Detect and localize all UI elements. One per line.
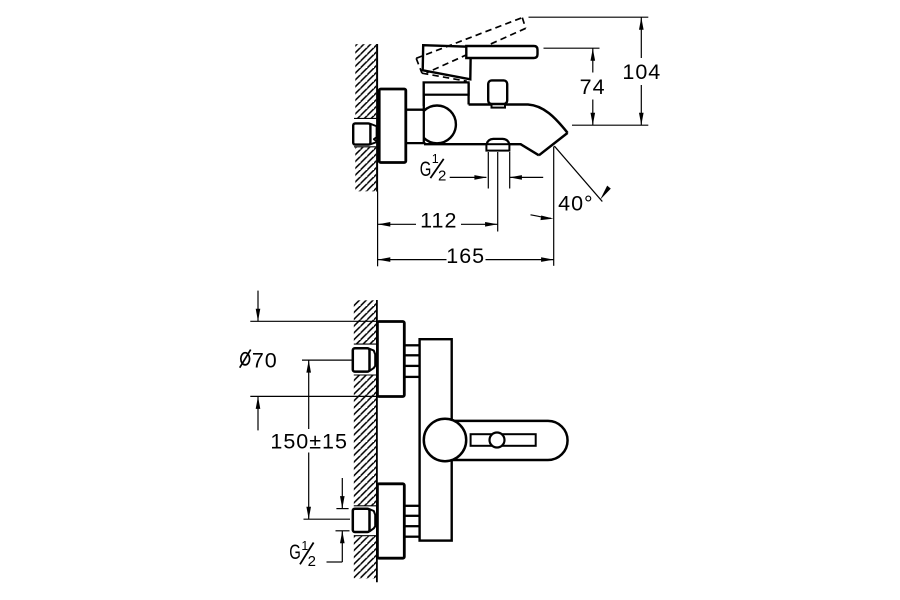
wall face line (front view) [376,300,378,582]
upper inlet fitting (front view) [370,349,376,371]
wall flange (side view) [379,89,406,163]
G1/2 label (side view) [420,152,447,184]
wall hatch (front view) [354,300,376,578]
diverter knob [488,80,507,104]
neck right edge [467,83,469,105]
upper wall flange (front view) [377,322,404,397]
G1/2 shower outlet nut [486,144,509,150]
diverter knob collar [492,103,506,108]
extension line spout outlet (74/104 lower ref) [572,124,648,126]
svg-text:G: G [420,158,432,181]
connector sleeve between flange and valve body [406,111,424,142]
body bottom line (right of G1/2 outlet) [509,143,521,145]
svg-text:2: 2 [438,167,446,184]
G1/2 extension line left [487,152,489,189]
handle lever bar (horizontal position) [466,46,537,58]
G1/2 dimension arrows (front view) [341,478,343,509]
G1/2 label (front view) [289,539,316,570]
hatch gap boundary lines (lower fitting) [354,505,376,507]
lower wall flange (front view) [377,484,404,558]
flange top extension line [250,320,377,322]
lower connection nipple ladder [404,506,419,537]
G1/2 leader elbow [327,561,343,563]
40 degree arrow at slant line [600,186,611,200]
wall face extension line (112/165 left ref) [377,192,379,267]
dia 70 arrows [257,291,259,322]
svg-text:1: 1 [301,539,308,553]
extension line top of dashed lever (104 upper ref) [529,16,649,18]
mixer body (front view) [420,339,452,540]
dimension 165 [378,259,447,261]
upper connection nipple ladder [404,345,419,377]
lower fitting centre extension line [304,518,351,520]
dimension 150+-15 [308,360,310,429]
G1/2 extension lines (front view) [336,508,348,510]
neck left edge [423,83,425,106]
lower inlet fitting (front view) [370,509,376,531]
svg-text:G: G [289,541,301,564]
wall face line (side view) [376,44,378,192]
spout outlet centre extension line [497,152,499,232]
hatch gap behind upper fitting [353,344,376,375]
lever grip recess [471,434,536,446]
fitting chamfer to wall (side view) [370,124,376,145]
neck collar under handle [424,82,469,94]
hatch gap lower boundary line [354,146,376,148]
G1/2 shower outlet dome [487,139,510,144]
wall inlet fitting (side view) [353,123,370,144]
svg-text:40°: 40° [558,191,594,215]
svg-text:70: 70 [252,349,278,373]
G1/2 extension line right [509,152,511,189]
svg-text:74: 74 [580,75,606,99]
spout lower-left slant [521,144,539,155]
valve body left flat edge [423,95,425,143]
dashed handle (raised position) [416,18,526,82]
dia 70 label [241,353,250,365]
cartridge cap circle [424,419,466,461]
svg-text:112: 112 [420,208,457,232]
wall hatch (side view) [355,44,376,191]
svg-text:1: 1 [432,152,439,166]
lever capsule (front view) [452,421,568,460]
dimension 112 [378,223,416,225]
dimension 74 [592,48,594,125]
hatch gap upper boundary line [354,117,376,119]
hatch gap behind lower fitting [353,506,376,536]
40 degree arc arrow at vertical line [531,215,552,219]
spout cut edge (40 deg outlet) [539,133,568,155]
hatch gap boundary lines (upper fitting) [354,343,376,345]
G1/2 dimension arrows [450,176,487,178]
flange bottom extension line [250,395,377,397]
handle hub [423,45,471,79]
40 degree slant line [554,146,602,202]
svg-text:150±15: 150±15 [270,429,348,453]
upper fitting centre extension line [302,359,352,361]
svg-text:2: 2 [308,553,316,570]
body top line to spout with right bend [469,105,568,133]
spout tip extension line (165 right ref) [553,147,555,266]
svg-text:104: 104 [622,60,661,84]
wall hatch gap behind inlet fitting [354,118,377,147]
body bottom line (left of G1/2 outlet) [424,143,487,145]
svg-text:165: 165 [446,244,485,268]
extension line lever top (74 upper ref) [544,47,600,49]
valve body circle (side view) [418,106,456,144]
dimension 104 [640,17,642,125]
lever screw [490,433,505,448]
